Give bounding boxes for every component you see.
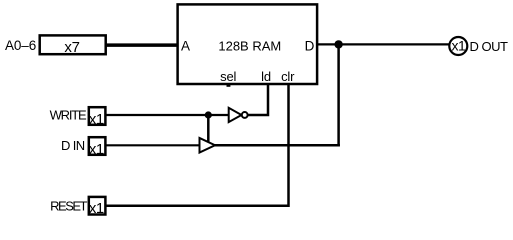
inverter U2 triangle: [229, 108, 242, 122]
svg-text:RESET: RESET: [50, 198, 87, 213]
svg-text:x7: x7: [64, 39, 79, 56]
svg-text:WRITE: WRITE: [50, 107, 87, 122]
junction node WRITE: [205, 111, 212, 118]
svg-text:D IN: D IN: [61, 138, 85, 153]
input port box WRITE x1: [89, 107, 106, 125]
svg-text:128B RAM: 128B RAM: [218, 38, 281, 53]
wire D IN to buffer: [106, 144, 200, 146]
input port width box x7: [40, 35, 106, 54]
wire bus A0-6 to RAM pin A: [106, 43, 178, 47]
wire RAM pin D to D OUT: [318, 43, 450, 45]
svg-text:ld: ld: [261, 69, 271, 84]
svg-text:x1: x1: [89, 141, 104, 158]
svg-text:sel: sel: [220, 69, 236, 84]
svg-text:clr: clr: [281, 69, 295, 84]
svg-text:D OUT: D OUT: [470, 39, 509, 54]
input port box RESET x1: [89, 197, 106, 215]
junction node D: [334, 40, 342, 48]
svg-text:x1: x1: [89, 200, 104, 217]
wire node D down to buffer output: [337, 44, 340, 146]
svg-text:x1: x1: [452, 38, 467, 54]
wire WRITE node down to tri-state enable: [207, 115, 210, 142]
svg-text:A0–6: A0–6: [5, 38, 36, 53]
tri-state buffer U3 triangle: [200, 138, 216, 153]
inverter U2 bubble: [242, 112, 248, 118]
input port box D IN x1: [89, 137, 106, 155]
svg-text:A: A: [181, 38, 190, 53]
wire WRITE to inverter: [106, 114, 229, 116]
output port circle x1 D OUT: [449, 37, 467, 55]
svg-text:D: D: [305, 38, 315, 53]
wire inverter output to RAM pin ld: [248, 84, 268, 115]
pin sel stub: [227, 85, 231, 87]
RAM block U1: [178, 4, 318, 84]
svg-text:x1: x1: [89, 111, 104, 128]
wire RESET to RAM pin clr: [106, 84, 289, 206]
wire buffer output to node D vertical: [214, 144, 340, 147]
